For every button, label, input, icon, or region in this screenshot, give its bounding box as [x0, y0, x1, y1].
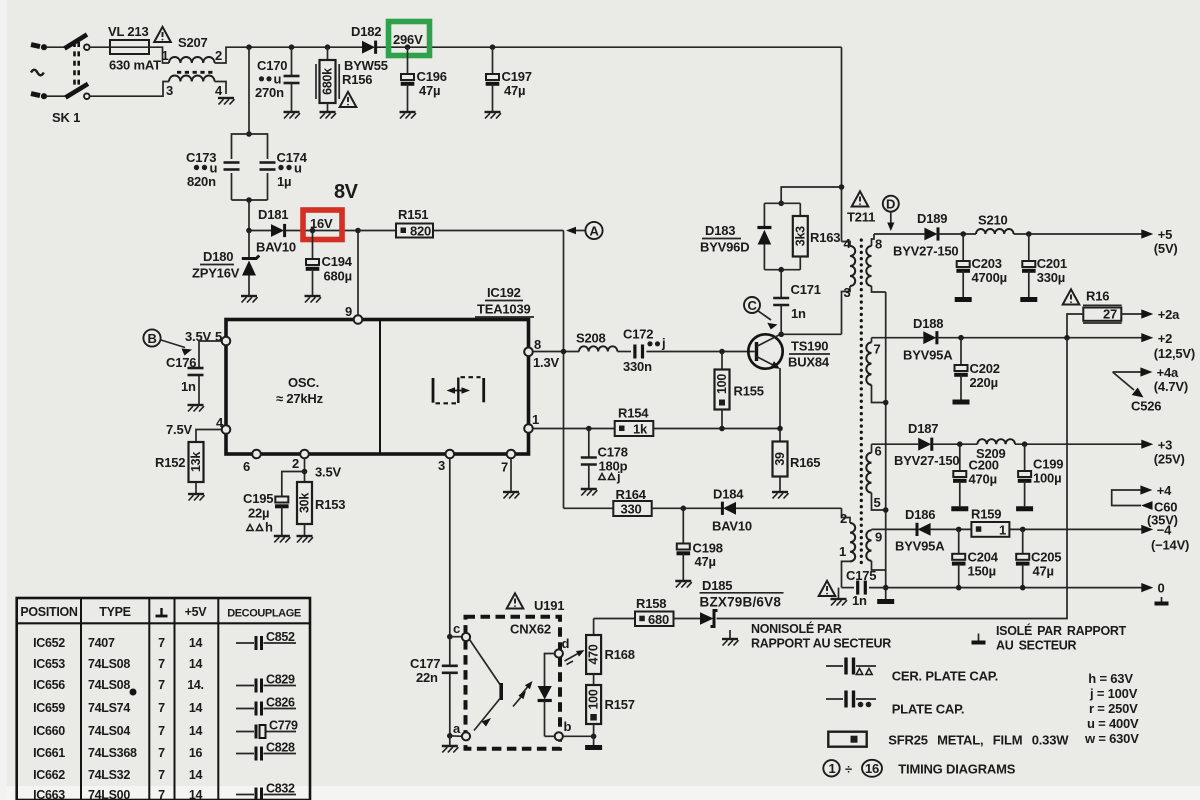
8V annotation (red): [334, 181, 359, 203]
legend SFR25: [828, 732, 1069, 748]
svg-text:14: 14: [189, 701, 203, 715]
svg-text:C203: C203: [972, 256, 1002, 271]
svg-text:14: 14: [189, 768, 203, 782]
ground (C170): [284, 112, 301, 119]
svg-text:1.3V: 1.3V: [533, 355, 559, 370]
wire to +3 arrow: [1015, 441, 1142, 447]
svg-text:330µ: 330µ: [1037, 270, 1065, 285]
T211 primary winding 2-1: [839, 508, 855, 587]
svg-text:1: 1: [532, 412, 539, 427]
svg-text:+2a: +2a: [1158, 307, 1180, 322]
wire switch to fuse: [90, 46, 110, 48]
legend voltage codes: [1084, 671, 1139, 746]
svg-text:74LS32: 74LS32: [88, 768, 130, 782]
svg-text:74LS74: 74LS74: [88, 701, 130, 715]
svg-text:14: 14: [189, 657, 203, 671]
line filter S207: [90, 35, 249, 98]
svg-text:U191: U191: [534, 598, 564, 613]
resistor R156: [316, 44, 372, 112]
svg-text:R168: R168: [605, 647, 635, 662]
top rail: [249, 46, 842, 48]
svg-text:(5V): (5V): [1154, 241, 1178, 256]
svg-text:IC660: IC660: [33, 724, 65, 738]
zener D180: [192, 231, 259, 297]
node (C177/a): [447, 733, 453, 746]
capacitor C173: [186, 134, 249, 200]
node (C173/C174 bottom): [246, 197, 252, 230]
capacitor C177: [410, 637, 458, 736]
capacitor C199: [1018, 444, 1063, 506]
svg-text:D180: D180: [203, 249, 233, 264]
svg-text:BUX84: BUX84: [788, 355, 830, 370]
svg-text:C199: C199: [1033, 457, 1063, 472]
svg-text:470µ: 470µ: [969, 472, 997, 487]
svg-text:150µ: 150µ: [968, 564, 996, 579]
resistor R164: [564, 487, 724, 517]
collector wire: [778, 332, 841, 338]
svg-text:330: 330: [621, 502, 642, 517]
svg-text:+5V: +5V: [185, 605, 208, 619]
wire rail down to C173/C174: [248, 47, 250, 134]
svg-text:7: 7: [158, 788, 165, 800]
T211 secondary winding 8: [866, 234, 885, 292]
warning triangle (R16): [1063, 289, 1080, 304]
ground (C197): [485, 112, 502, 119]
svg-text:BYV27-150: BYV27-150: [893, 244, 958, 259]
svg-text:100µ: 100µ: [1033, 471, 1061, 486]
svg-text:820: 820: [410, 224, 431, 239]
svg-text:7: 7: [158, 746, 165, 760]
IC decoupling table: [17, 598, 310, 800]
svg-text:BYV96D: BYV96D: [700, 240, 749, 255]
resistor R165: [773, 429, 821, 493]
warning triangle (U191): [507, 593, 524, 608]
svg-text:27: 27: [1103, 306, 1117, 321]
svg-text:+2: +2: [1158, 331, 1172, 346]
NONISOLE text: [751, 621, 891, 651]
opto pin c: [450, 621, 470, 641]
svg-text:IC652: IC652: [33, 636, 65, 650]
svg-text:R151: R151: [398, 207, 428, 222]
isole ground symbol: [972, 634, 986, 643]
svg-text:R159: R159: [971, 507, 1001, 522]
svg-text:1: 1: [999, 523, 1006, 538]
svg-text:TEA1039: TEA1039: [477, 302, 531, 317]
pin 9: [345, 304, 362, 324]
resistor R168: [586, 619, 635, 675]
T211 secondary winding 7: [866, 338, 885, 403]
resistor R157: [586, 674, 635, 736]
svg-text:IC661: IC661: [33, 746, 65, 760]
svg-text:1: 1: [829, 761, 836, 776]
svg-text:−4: −4: [1157, 523, 1172, 538]
diode D183: [700, 203, 771, 269]
capacitor C178: [581, 429, 628, 490]
pin 8: [524, 337, 559, 370]
ground (C201, isolated): [1020, 299, 1037, 301]
svg-text:C175: C175: [846, 568, 876, 583]
wire to pin 9: [357, 231, 359, 316]
node B: [143, 329, 192, 355]
svg-text:T211: T211: [847, 210, 875, 225]
ground (secondary bus, isolated): [877, 601, 894, 603]
svg-text:IC659: IC659: [33, 701, 65, 715]
inductor S209: [976, 439, 1015, 461]
wire to snubber: [778, 187, 841, 206]
svg-text:74LS00: 74LS00: [88, 788, 130, 800]
legend plate cap: [826, 691, 964, 717]
emitter wire: [779, 368, 781, 429]
diode D189: [893, 211, 976, 259]
svg-text:C852: C852: [266, 630, 295, 644]
svg-text:PLATE CAP.: PLATE CAP.: [892, 702, 965, 717]
capacitor C176: [166, 355, 204, 405]
opto light arrows: [513, 681, 533, 707]
svg-text:D185: D185: [702, 578, 732, 593]
svg-text:SK 1: SK 1: [52, 110, 80, 125]
resistor R153: [297, 482, 345, 536]
svg-text:(12,5V): (12,5V): [1154, 346, 1195, 361]
ground (C194): [305, 296, 322, 303]
+4 / C60 fork: [1112, 483, 1178, 528]
node D: [883, 196, 899, 231]
svg-text:470: 470: [587, 644, 601, 664]
svg-text:7: 7: [158, 678, 165, 692]
svg-text:j: j: [616, 469, 620, 484]
svg-text:1n: 1n: [181, 379, 196, 394]
svg-text:BYV95A: BYV95A: [903, 348, 953, 363]
svg-text:180p: 180p: [599, 459, 628, 474]
+2a output arrow: [1141, 307, 1180, 322]
wire pin5 to C176: [199, 341, 222, 368]
svg-text:+4a: +4a: [1157, 365, 1179, 380]
capacitor C196: [401, 44, 447, 112]
diode D187: [894, 421, 977, 468]
ISOLE text: [996, 623, 1127, 653]
ground (C196): [400, 112, 417, 119]
svg-text:1µ: 1µ: [277, 174, 291, 189]
svg-text:ZPY16V: ZPY16V: [192, 266, 240, 281]
svg-text:47µ: 47µ: [695, 554, 716, 569]
svg-text:≈ 27kHz: ≈ 27kHz: [276, 391, 324, 406]
wire node A vertical: [563, 231, 565, 509]
warning triangle (R156): [340, 92, 357, 107]
capacitor C204: [952, 529, 999, 587]
transformer T211 label: [847, 210, 875, 225]
ground (0 rail left): [831, 588, 848, 606]
wire pin2 down: [302, 458, 342, 482]
wire pin1 row: [533, 426, 615, 432]
ground (C202, isolated): [953, 401, 970, 403]
svg-text:4: 4: [216, 415, 224, 430]
svg-text:820n: 820n: [187, 174, 216, 189]
wire winding6 to D187: [872, 443, 919, 445]
296V green test box: [389, 22, 430, 56]
svg-text:c: c: [453, 621, 460, 636]
opto d-to-R168 arrow: [565, 650, 585, 665]
svg-text:3.5V: 3.5V: [315, 465, 341, 480]
svg-text:16: 16: [865, 761, 879, 776]
ground (C200, isolated): [951, 508, 968, 510]
capacitor C194: [306, 231, 353, 297]
svg-text:h = 63V: h = 63V: [1088, 671, 1133, 686]
svg-text:74LS08: 74LS08: [88, 678, 130, 692]
svg-text:(4.7V): (4.7V): [1154, 379, 1188, 394]
svg-text:B: B: [148, 331, 157, 346]
svg-text:j: j: [661, 336, 665, 351]
capacitor C170: [255, 44, 300, 112]
svg-text:100: 100: [587, 689, 601, 709]
svg-text:R156: R156: [342, 72, 372, 87]
mains input bottom terminal: [31, 93, 66, 99]
svg-text:VL 213: VL 213: [108, 24, 148, 39]
svg-text:OSC.: OSC.: [288, 375, 319, 390]
svg-text:D186: D186: [905, 507, 935, 522]
svg-text:30k: 30k: [298, 493, 312, 513]
svg-text:270n: 270n: [255, 85, 284, 100]
svg-text:C202: C202: [970, 361, 1000, 376]
svg-text:C205: C205: [1031, 550, 1061, 565]
svg-text:TYPE: TYPE: [99, 605, 130, 619]
svg-text:C171: C171: [791, 282, 821, 297]
capacitor C829 (table): [236, 673, 296, 693]
node (pin3/C177/c): [447, 634, 453, 640]
pin 6: [243, 450, 261, 474]
svg-text:R154: R154: [618, 406, 649, 421]
ground (C177): [442, 746, 459, 753]
svg-text:7: 7: [158, 724, 165, 738]
T211 primary winding 4-3: [842, 236, 856, 334]
snubber top bracket: [764, 202, 800, 204]
svg-text:2: 2: [840, 511, 847, 526]
capacitor C828 (table): [236, 741, 296, 761]
ground (C198): [675, 581, 692, 588]
svg-text:A: A: [590, 224, 600, 239]
ground (C176): [188, 405, 205, 412]
svg-text:3: 3: [438, 458, 445, 473]
svg-text:IC653: IC653: [33, 657, 65, 671]
capacitor C203: [956, 234, 1007, 297]
svg-text:C201: C201: [1037, 256, 1067, 271]
svg-text:C178: C178: [598, 445, 628, 460]
svg-text:3k3: 3k3: [793, 226, 807, 246]
resistor R16: [1067, 289, 1142, 339]
svg-text:C172: C172: [623, 327, 653, 342]
svg-text:BYW55: BYW55: [344, 58, 388, 73]
svg-text:C204: C204: [968, 550, 999, 565]
capacitor C201: [1022, 234, 1067, 297]
0 output arrow: [1141, 581, 1168, 604]
svg-text:630 mAT: 630 mAT: [109, 58, 161, 73]
svg-text:C526: C526: [1131, 399, 1161, 414]
pin 1: [524, 412, 539, 433]
svg-text:S208: S208: [576, 331, 606, 346]
svg-text:R165: R165: [790, 455, 820, 470]
svg-text:IC663: IC663: [33, 788, 65, 800]
svg-text:9: 9: [345, 304, 352, 319]
svg-text:7: 7: [158, 636, 165, 650]
svg-text:S210: S210: [978, 213, 1008, 228]
svg-text:SFR25 METAL, FILM 0.33W: SFR25 METAL, FILM 0.33W: [888, 733, 1069, 748]
svg-text:RAPPORT AU SECTEUR: RAPPORT AU SECTEUR: [751, 637, 891, 651]
inductor S208: [576, 331, 617, 352]
svg-text:d: d: [562, 636, 570, 651]
svg-text:6: 6: [243, 459, 250, 474]
svg-text:4700µ: 4700µ: [972, 270, 1007, 285]
svg-text:NONISOLÉ PAR: NONISOLÉ PAR: [751, 621, 842, 636]
svg-text:74LS08: 74LS08: [88, 657, 130, 671]
svg-text:C829: C829: [266, 673, 295, 687]
transistor Q TS190 BUX84: [748, 334, 830, 369]
pin 7: [501, 450, 515, 492]
svg-text:330n: 330n: [623, 359, 652, 374]
ground (R153): [297, 536, 314, 543]
svg-text:C170: C170: [257, 58, 287, 73]
svg-text:BYV95A: BYV95A: [895, 539, 945, 554]
svg-text:1n: 1n: [791, 306, 806, 321]
capacitor C172: [617, 327, 754, 375]
svg-text:S207: S207: [178, 35, 208, 50]
svg-text:D187: D187: [908, 421, 938, 436]
+5 output arrow: [1141, 227, 1177, 256]
svg-text:D182: D182: [351, 24, 381, 39]
capacitor C832 (table): [236, 782, 296, 800]
svg-text:R157: R157: [605, 697, 635, 712]
svg-text:÷: ÷: [845, 762, 852, 777]
svg-text:C194: C194: [322, 254, 353, 269]
svg-text:1n: 1n: [852, 593, 867, 608]
svg-text:1: 1: [839, 544, 846, 559]
capacitor C200: [953, 444, 999, 506]
ground (pin 7): [503, 492, 520, 499]
svg-text:+5: +5: [1158, 227, 1172, 242]
wire fuse to S207: [149, 47, 169, 63]
svg-text:14.: 14.: [187, 678, 203, 692]
capacitor C202: [954, 338, 1000, 400]
capacitor C195: [243, 472, 305, 537]
wire pin3 down to optocoupler: [449, 458, 451, 636]
node (R151/pin9): [355, 228, 361, 234]
opto LED: [538, 636, 572, 740]
svg-text:7: 7: [874, 342, 881, 357]
svg-text:5: 5: [874, 495, 881, 510]
svg-text:u: u: [294, 161, 302, 176]
svg-text:C197: C197: [502, 69, 532, 84]
svg-text:74LS04: 74LS04: [88, 724, 130, 738]
node (D181 anode): [246, 228, 252, 234]
svg-text:D188: D188: [913, 316, 943, 331]
ground (S207 pin 4): [218, 98, 235, 105]
capacitor C852 (table): [236, 630, 296, 650]
fuse VL213: [108, 24, 161, 73]
capacitor C205: [1016, 529, 1061, 587]
ground (R152): [188, 494, 205, 501]
svg-text:BZX79B/6V8: BZX79B/6V8: [700, 595, 782, 610]
svg-text:39: 39: [773, 452, 787, 466]
svg-text:9: 9: [875, 530, 882, 545]
svg-text:7407: 7407: [88, 636, 115, 650]
svg-text:BAV10: BAV10: [256, 240, 296, 255]
svg-text:D181: D181: [258, 207, 288, 222]
svg-text:+3: +3: [1158, 438, 1172, 453]
capacitor C198: [677, 508, 723, 581]
ground (C199, isolated): [1016, 508, 1033, 510]
svg-text:3: 3: [166, 83, 173, 98]
svg-text:7: 7: [158, 701, 165, 715]
ground (R157, isolated): [585, 747, 602, 749]
diode D186: [895, 507, 971, 554]
svg-text:R158: R158: [636, 596, 666, 611]
svg-text:b: b: [564, 719, 572, 734]
svg-text:(25V): (25V): [1154, 452, 1185, 467]
svg-text:3: 3: [844, 285, 851, 300]
capacitor C175: [842, 568, 1143, 608]
resistor R158: [594, 596, 700, 627]
svg-text:47µ: 47µ: [419, 83, 440, 98]
svg-text:47µ: 47µ: [1033, 564, 1054, 579]
svg-text:u = 400V: u = 400V: [1087, 716, 1139, 731]
legend cer plate cap: [826, 658, 998, 684]
wire rail down to T211: [839, 47, 845, 241]
svg-text:+4: +4: [1157, 483, 1172, 498]
svg-text:C828: C828: [266, 741, 295, 755]
node (C173/C174 top): [246, 131, 252, 137]
svg-text:ISOLÉ PAR RAPPORT: ISOLÉ PAR RAPPORT: [996, 623, 1127, 638]
svg-text:7: 7: [158, 657, 165, 671]
svg-text:22µ: 22µ: [248, 506, 269, 521]
svg-text:IC662: IC662: [33, 768, 65, 782]
svg-text:680k: 680k: [321, 68, 335, 95]
warning triangle (T211): [852, 191, 869, 206]
+2 output arrow: [1141, 331, 1195, 361]
svg-text:C779: C779: [269, 719, 298, 733]
ground (C203, isolated): [955, 299, 972, 301]
svg-text:7: 7: [501, 460, 508, 475]
svg-text:D184: D184: [713, 487, 744, 502]
secondary common bus: [883, 292, 889, 599]
svg-text:R155: R155: [734, 384, 764, 399]
node (R155 top): [719, 349, 725, 355]
svg-text:4: 4: [215, 83, 223, 98]
node A: [566, 222, 603, 239]
svg-text:C176: C176: [166, 355, 196, 370]
svg-text:C832: C832: [266, 782, 295, 796]
svg-text:C826: C826: [266, 696, 295, 710]
svg-text:2: 2: [215, 48, 222, 63]
resistor R154: [615, 406, 783, 437]
svg-text:(−14V): (−14V): [1151, 538, 1189, 553]
svg-text:1: 1: [162, 48, 169, 63]
node (rail/C173): [246, 44, 252, 50]
svg-text:R164: R164: [616, 487, 647, 502]
wire winding8 to D189: [874, 233, 924, 235]
warning triangle (fuse): [154, 27, 171, 42]
node C: [744, 297, 778, 330]
svg-text:100: 100: [715, 374, 729, 394]
capacitor C171: [773, 270, 821, 335]
IC internal modulator symbol: [433, 377, 484, 403]
svg-text:R152: R152: [155, 455, 185, 470]
svg-text:47µ: 47µ: [504, 83, 525, 98]
svg-text:C177: C177: [410, 656, 440, 671]
svg-text:4: 4: [844, 236, 852, 251]
svg-text:220µ: 220µ: [970, 375, 998, 390]
optocoupler U191 CNX62 dashed box: [466, 598, 565, 749]
opto pin a: [450, 721, 470, 740]
svg-text:8V: 8V: [334, 181, 359, 203]
diode D182: [344, 24, 388, 73]
svg-text:7: 7: [158, 768, 165, 782]
